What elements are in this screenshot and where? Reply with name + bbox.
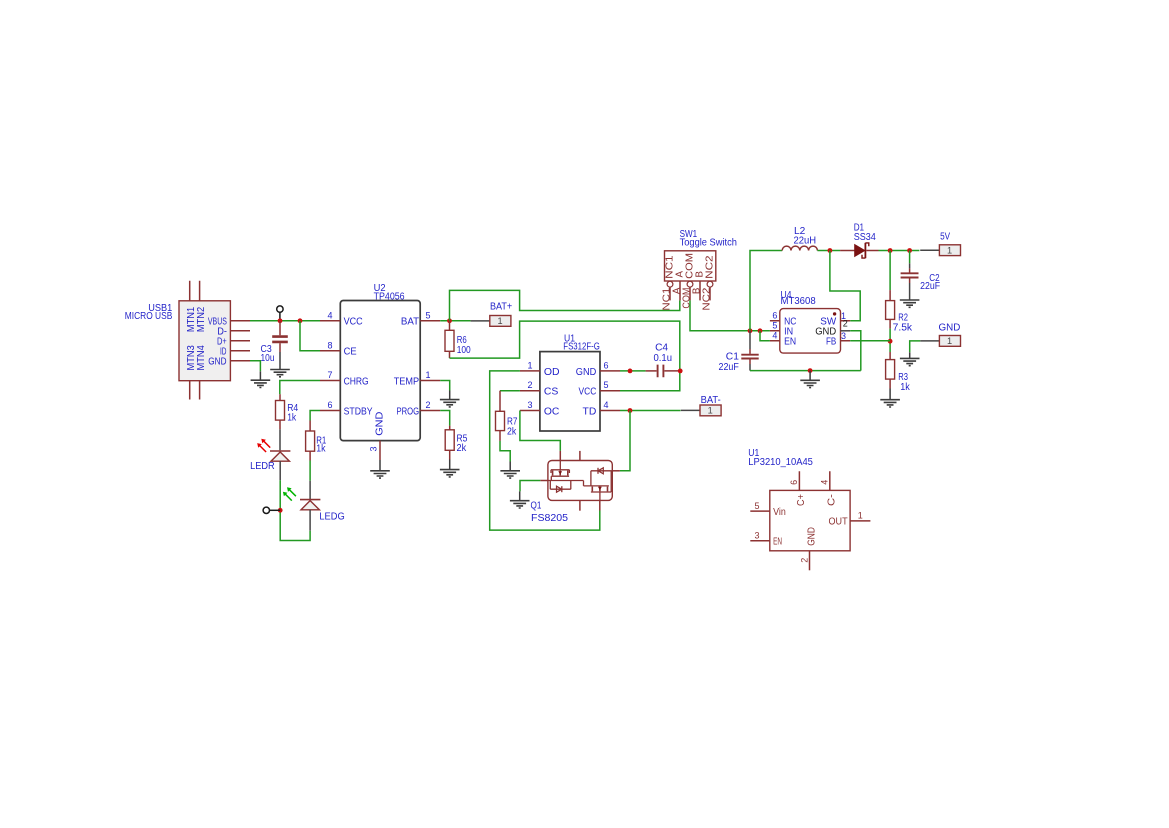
connector BAT- (681, 395, 721, 416)
svg-text:1: 1 (947, 336, 952, 346)
wire U4 GND pin drop (850, 331, 861, 371)
connector GND (920, 323, 960, 347)
svg-text:LEDR: LEDR (250, 461, 275, 472)
svg-text:5: 5 (754, 501, 759, 511)
svg-text:10u: 10u (261, 353, 275, 364)
svg-text:SS34: SS34 (854, 232, 877, 243)
svg-text:VCC: VCC (344, 316, 363, 328)
ground Q1 (510, 491, 530, 508)
svg-text:BAT: BAT (401, 316, 420, 328)
ground GND connector (900, 352, 920, 365)
wire TD to BAT- (620, 410, 681, 412)
wire CE (300, 321, 320, 351)
junction ground rail (808, 368, 813, 373)
ground R7 (500, 462, 520, 479)
junction IN-L2-C1 (748, 328, 753, 333)
svg-text:22uH: 22uH (794, 236, 817, 247)
svg-text:1k: 1k (900, 382, 910, 393)
junction VBUS-CE (298, 318, 303, 323)
wire R7 to ground (500, 441, 510, 462)
svg-text:4: 4 (772, 331, 777, 341)
svg-text:BAT-: BAT- (701, 395, 721, 406)
svg-text:TD: TD (583, 405, 597, 417)
wire EN link (760, 331, 770, 341)
ground R5 (440, 460, 460, 477)
svg-text:NC2: NC2 (701, 288, 712, 311)
wire Q1 source to ground (520, 481, 540, 492)
svg-text:LEDG: LEDG (319, 512, 344, 523)
resistor R5 2k (445, 426, 467, 460)
svg-text:22uF: 22uF (920, 281, 940, 292)
wire CS (500, 390, 520, 392)
resistor R1 1k (306, 421, 327, 461)
svg-text:GND: GND (208, 356, 227, 368)
junction GND6 (628, 369, 633, 374)
capacitor C2 22uF (901, 251, 941, 301)
svg-text:5: 5 (772, 321, 777, 331)
svg-text:2: 2 (843, 319, 848, 329)
ground U2 GND pin (370, 460, 390, 478)
svg-text:2: 2 (425, 400, 430, 410)
svg-text:2: 2 (799, 558, 809, 563)
svg-text:1: 1 (527, 360, 532, 370)
svg-text:GND: GND (373, 411, 385, 436)
wire STDBY (310, 411, 320, 421)
ground U4 (800, 371, 820, 388)
transistor Q1 FS8205 (531, 451, 620, 524)
wire OC loop (520, 411, 560, 451)
svg-text:2k: 2k (457, 443, 467, 454)
wire TD down to Q1 (620, 411, 630, 471)
wire LEDG-rail (309, 510, 311, 531)
LED LEDG (283, 487, 345, 522)
svg-text:MTN4: MTN4 (195, 345, 207, 370)
svg-text:4: 4 (327, 310, 332, 320)
svg-text:5: 5 (603, 380, 608, 390)
svg-text:CE: CE (344, 346, 357, 358)
svg-text:STDBY: STDBY (344, 405, 373, 417)
junction SW node (828, 248, 833, 253)
svg-text:1k: 1k (287, 413, 296, 424)
wire TEMP (440, 381, 450, 391)
connector BAT+ (471, 301, 513, 326)
junction C4-VCCnet (678, 369, 683, 374)
ground USB (251, 371, 271, 387)
ground TEMP (440, 391, 460, 407)
wire FB net (850, 340, 890, 342)
junction TD (628, 408, 633, 413)
svg-text:3: 3 (841, 331, 846, 341)
svg-text:BAT+: BAT+ (490, 301, 513, 312)
svg-text:VCC: VCC (579, 386, 597, 398)
svg-text:1: 1 (425, 370, 430, 380)
resistor R6 100 (445, 321, 471, 358)
svg-text:1: 1 (497, 316, 502, 326)
wire PROG (440, 411, 450, 426)
svg-text:EN: EN (773, 535, 782, 547)
resistor R7 2k (496, 391, 518, 441)
diode D1 SS34 (840, 223, 878, 259)
node port LED rail (263, 507, 269, 513)
svg-text:6: 6 (772, 311, 777, 321)
node VBUS port (277, 306, 283, 312)
wire 5V rail (879, 250, 920, 252)
svg-text:4: 4 (603, 400, 608, 410)
svg-text:FS312F-G: FS312F-G (563, 342, 600, 353)
svg-text:NC2: NC2 (705, 255, 716, 279)
svg-text:OUT: OUT (829, 516, 849, 528)
inductor L2 22uH (782, 226, 817, 251)
svg-text:100: 100 (457, 345, 472, 356)
svg-text:1: 1 (947, 245, 952, 255)
op-amp U1 FS312F-G (520, 333, 620, 431)
svg-text:GND: GND (576, 366, 597, 378)
capacitor C3 (261, 321, 288, 364)
junction IN-EN (758, 328, 763, 333)
svg-text:MT3608: MT3608 (781, 296, 816, 307)
wire OD loop (490, 371, 600, 530)
junction 5V-C2 (907, 248, 912, 253)
svg-text:PROG: PROG (397, 405, 420, 417)
svg-text:OD: OD (544, 366, 560, 378)
svg-text:GND: GND (939, 323, 961, 334)
op-amp U2 TP4056 (320, 283, 440, 460)
svg-text:MICRO USB: MICRO USB (125, 311, 173, 322)
svg-text:C+: C+ (795, 494, 807, 506)
svg-text:0.1u: 0.1u (654, 353, 673, 364)
svg-text:7.5k: 7.5k (893, 323, 913, 334)
wire R1-LEDG (309, 461, 311, 481)
svg-text:2k: 2k (507, 427, 516, 438)
LED LEDR (250, 439, 290, 472)
resistor R2 7.5k (886, 251, 913, 353)
op-amp U4 MT3608 (770, 290, 850, 353)
capacitor C4 0.1u (646, 342, 681, 377)
svg-text:Toggle Switch: Toggle Switch (680, 238, 737, 249)
svg-text:Vin: Vin (773, 506, 786, 518)
junction BAT (447, 318, 452, 323)
wire GND6 to C4 (620, 370, 646, 372)
svg-text:1: 1 (858, 511, 863, 521)
svg-text:LP3210_10A45: LP3210_10A45 (748, 457, 813, 468)
svg-text:TP4056: TP4056 (374, 292, 405, 303)
svg-text:8: 8 (327, 340, 332, 350)
wire SW node down to U4 SW (830, 251, 860, 321)
svg-text:1: 1 (708, 406, 713, 416)
wire VBUS net (250, 320, 320, 322)
svg-text:OC: OC (544, 405, 560, 417)
svg-text:C-: C- (826, 494, 838, 506)
svg-text:6: 6 (327, 400, 332, 410)
capacitor C1 22uF (719, 331, 759, 373)
svg-text:FB: FB (826, 335, 836, 347)
svg-text:GND: GND (805, 527, 817, 546)
wire battery to L2 (750, 251, 782, 331)
wire L2 to D1 (817, 250, 840, 252)
wire BAT+ loop to SW1-A (450, 290, 680, 320)
svg-text:4: 4 (820, 480, 830, 485)
svg-text:2: 2 (527, 380, 532, 390)
svg-text:MTN2: MTN2 (195, 307, 207, 332)
svg-text:3: 3 (754, 531, 759, 541)
wire GND connector to ground (910, 341, 921, 352)
op-amp U1 LP3210_10A45 (748, 448, 870, 570)
resistor R3 1k (886, 352, 910, 393)
ground R3 (880, 389, 900, 408)
svg-text:EN: EN (784, 335, 796, 347)
svg-text:FS8205: FS8205 (531, 513, 568, 524)
svg-text:22uF: 22uF (719, 362, 739, 373)
ground C3 (270, 352, 290, 377)
svg-text:5V: 5V (940, 232, 950, 243)
wire R6 to FS312F VCC (450, 321, 680, 391)
wire R4-LEDR (279, 429, 281, 450)
svg-text:6: 6 (789, 480, 799, 485)
svg-text:7: 7 (327, 370, 332, 380)
junction LED rail (278, 508, 283, 513)
wire CHRG (280, 381, 320, 395)
wire LEDR-rail (279, 461, 281, 480)
wire SW1 COM to IN (690, 300, 770, 330)
wire USB GND (250, 361, 260, 372)
junction FB-R2-R3 (888, 339, 893, 344)
svg-text:6: 6 (603, 360, 608, 370)
connector 5V (920, 232, 960, 256)
svg-text:Q1: Q1 (531, 500, 542, 511)
ground C2 (900, 300, 920, 307)
switch SW1 Toggle Switch (661, 229, 736, 311)
svg-text:CHRG: CHRG (344, 375, 369, 387)
svg-text:C4: C4 (655, 342, 669, 353)
resistor R4 1k (276, 394, 299, 429)
junction VBUS-C3 (278, 318, 283, 323)
wire BAT (440, 320, 470, 322)
wire U4 ground rail (750, 370, 861, 372)
svg-text:3: 3 (527, 400, 532, 410)
svg-text:TEMP: TEMP (394, 375, 419, 387)
junction 5V-R2 (888, 248, 893, 253)
svg-text:CS: CS (544, 386, 559, 398)
svg-text:3: 3 (368, 446, 378, 451)
svg-text:1k: 1k (316, 443, 325, 454)
svg-text:5: 5 (425, 310, 430, 320)
connector USB1 MICRO USB (125, 281, 250, 400)
